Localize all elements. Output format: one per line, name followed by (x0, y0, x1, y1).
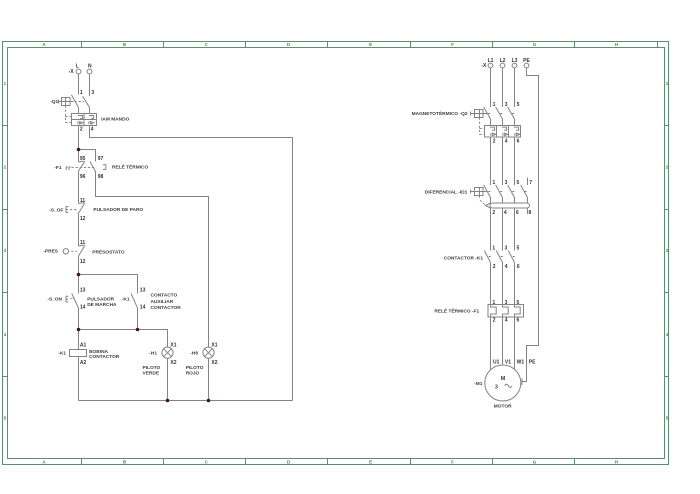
wire L1 to Q2 (490, 68, 492, 107)
svg-text:CONTACTOR: CONTACTOR (89, 354, 120, 360)
svg-text:13: 13 (140, 287, 146, 293)
wire stub pole 7 (527, 178, 529, 186)
svg-text:-M1: -M1 (474, 381, 483, 387)
svg-text:6: 6 (516, 210, 519, 216)
svg-text:4: 4 (504, 210, 507, 216)
svg-text:12: 12 (80, 259, 86, 265)
node junction marcha branch (77, 273, 81, 277)
node junction K1 aux rejoin (136, 328, 140, 332)
svg-text:-X: -X (481, 63, 487, 69)
svg-text:F: F (451, 42, 454, 47)
svg-text:6: 6 (517, 318, 520, 324)
svg-text:IAM MANDO: IAM MANDO (101, 116, 130, 122)
svg-text:96: 96 (80, 174, 86, 180)
svg-text:-Q1: -Q1 (50, 99, 58, 105)
svg-text:-PRES: -PRES (43, 249, 58, 255)
svg-text:X2: X2 (211, 360, 217, 366)
lamp H8 (piloto rojo) (186, 342, 218, 400)
svg-text:E: E (369, 42, 372, 47)
pushbutton S_OF (NC, paro) (49, 198, 143, 222)
svg-text:1: 1 (492, 246, 495, 252)
svg-text:2: 2 (4, 165, 7, 170)
svg-text:F: F (451, 460, 454, 465)
wire Q1 pole 2 out to right rail (neutral) (90, 126, 293, 401)
svg-text:M: M (501, 376, 506, 382)
svg-text:X1: X1 (170, 342, 176, 348)
svg-text:V1: V1 (505, 360, 511, 366)
svg-text:1: 1 (666, 81, 669, 86)
pushbutton S_ON (NO, marcha) (47, 287, 117, 310)
svg-text:DIFERENCIAL -ID1: DIFERENCIAL -ID1 (425, 189, 468, 195)
svg-text:4: 4 (505, 264, 508, 270)
svg-text:3: 3 (505, 180, 508, 186)
svg-text:4: 4 (4, 332, 7, 337)
svg-text:3: 3 (91, 90, 94, 96)
svg-text:E: E (369, 460, 372, 465)
svg-text:2: 2 (492, 210, 495, 216)
wire branch to F1 97 (79, 150, 96, 162)
lamp H1 (piloto verde) (143, 342, 177, 400)
svg-text:3: 3 (505, 102, 508, 108)
svg-text:VERDE: VERDE (143, 370, 160, 376)
svg-text:PULSADOR DE PARO: PULSADOR DE PARO (93, 207, 143, 213)
svg-text:-S_OF: -S_OF (49, 207, 63, 213)
breaker Q2 (magnetotermico) (412, 102, 521, 144)
svg-text:ROJO: ROJO (186, 370, 200, 376)
wire PRES to junction (78, 257, 80, 294)
svg-text:4: 4 (666, 332, 669, 337)
contactor K1 power contacts (444, 246, 520, 270)
svg-text:-H8: -H8 (190, 351, 198, 357)
RCD ID1 (diferencial) (425, 180, 533, 216)
svg-text:X2: X2 (170, 360, 176, 366)
svg-text:X1: X1 (211, 342, 217, 348)
svg-text:7: 7 (529, 180, 532, 186)
svg-text:PILOTO: PILOTO (186, 365, 204, 371)
node bottom H8 (207, 399, 211, 403)
svg-text:PRESOSTATO: PRESOSTATO (92, 250, 125, 256)
breaker Q1 (50, 95, 129, 133)
svg-text:5: 5 (4, 415, 7, 420)
svg-text:-K1: -K1 (58, 351, 66, 357)
pressure switch PRES (NC) (43, 240, 124, 265)
svg-text:G: G (533, 460, 537, 465)
node junction lamp branch (77, 328, 81, 332)
svg-text:2: 2 (666, 165, 669, 170)
svg-text:5: 5 (666, 415, 669, 420)
svg-text:-F1: -F1 (54, 165, 62, 171)
wire S_OF to PRES (78, 214, 80, 246)
svg-text:A1: A1 (80, 342, 87, 348)
svg-text:BOBINA: BOBINA (89, 349, 108, 355)
wire junction to pilot verde (79, 330, 168, 348)
contact K1 aux 13-14 (NO) (122, 287, 181, 311)
svg-text:L: L (76, 64, 79, 70)
svg-text:3: 3 (505, 246, 508, 252)
svg-text:A2: A2 (80, 360, 87, 366)
svg-text:1: 1 (493, 180, 496, 186)
svg-text:4: 4 (505, 318, 508, 324)
svg-text:98: 98 (98, 174, 104, 180)
wire K1 aux down to junction (137, 308, 139, 330)
svg-text:-X: -X (69, 69, 75, 75)
svg-text:DE MARCHA: DE MARCHA (87, 302, 117, 308)
wire L2 to Q2 (502, 68, 504, 107)
svg-text:4: 4 (505, 138, 508, 144)
svg-text:12: 12 (80, 216, 86, 222)
wire F1 to motor (491, 317, 515, 370)
svg-text:14: 14 (80, 305, 86, 311)
svg-text:2: 2 (493, 318, 496, 324)
svg-text:G: G (533, 42, 537, 47)
motor M1 (474, 360, 536, 410)
node junction at F1 (77, 148, 81, 152)
wire L3 to Q2 (514, 68, 516, 107)
svg-text:AUXILIAR: AUXILIAR (151, 299, 174, 305)
svg-text:97: 97 (98, 156, 104, 162)
wire F1 98 over to pilot rojo column (96, 172, 209, 348)
svg-text:PULSADOR: PULSADOR (87, 297, 114, 303)
wire K1 to F1 (491, 263, 515, 305)
svg-text:2: 2 (80, 126, 83, 132)
wire N terminal to Q1 pole 2 (89, 74, 91, 96)
svg-text:14: 14 (140, 305, 146, 311)
wire Q2 to ID1 (491, 137, 515, 185)
svg-text:5: 5 (517, 180, 520, 186)
svg-text:CONTACTOR -K1: CONTACTOR -K1 (444, 256, 484, 262)
wire PE to motor (522, 68, 539, 385)
wire bottom return line (79, 400, 293, 402)
svg-text:1: 1 (493, 102, 496, 108)
svg-text:-S_ON: -S_ON (47, 297, 62, 303)
node bottom H1 (166, 399, 170, 403)
svg-text:-H1: -H1 (149, 351, 157, 357)
coil K1 (bobina contactor) (58, 330, 120, 401)
wire L terminal to Q1 pole 1 (78, 74, 80, 95)
wire branch to K1 aux 13 (79, 275, 138, 294)
svg-text:3: 3 (495, 384, 498, 390)
svg-text:6: 6 (517, 138, 520, 144)
svg-text:CONTACTO: CONTACTO (151, 292, 178, 298)
svg-text:5: 5 (517, 102, 520, 108)
thermal relay F1 power block (434, 300, 523, 324)
svg-text:MOTOR: MOTOR (494, 403, 512, 409)
svg-text:PILOTO: PILOTO (143, 365, 161, 371)
terminal -X (L,N) (69, 64, 92, 76)
svg-text:13: 13 (80, 287, 86, 293)
svg-text:U1: U1 (493, 360, 500, 366)
svg-text:4: 4 (91, 126, 94, 132)
relay contact F1 95-96 (NC) with 97-98 (NO) (54, 156, 148, 180)
svg-text:2: 2 (493, 138, 496, 144)
terminal -X (L1 L2 L3 PE) (481, 58, 530, 69)
svg-text:N: N (88, 64, 92, 70)
wire S_ON to lamp junction (78, 308, 80, 330)
wire Q1 pole 1 down to node (78, 126, 80, 163)
svg-text:CONTACTOR: CONTACTOR (151, 305, 182, 311)
svg-text:-K1: -K1 (122, 297, 130, 303)
svg-text:PE: PE (529, 360, 536, 366)
svg-text:2: 2 (493, 264, 496, 270)
svg-text:6: 6 (517, 264, 520, 270)
svg-text:5: 5 (517, 246, 520, 252)
wire F1 96 down to S_OF (78, 172, 80, 204)
svg-text:8: 8 (529, 210, 532, 216)
svg-text:1: 1 (80, 90, 83, 96)
svg-text:3: 3 (4, 248, 7, 253)
svg-text:W1: W1 (517, 360, 525, 366)
svg-text:3: 3 (666, 248, 669, 253)
svg-text:1: 1 (4, 81, 7, 86)
wire ID1 to K1 (491, 214, 515, 251)
